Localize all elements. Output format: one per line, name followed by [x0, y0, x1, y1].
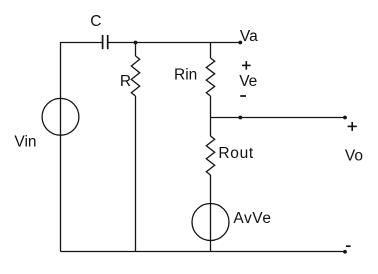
wire Rin bottom to node: [210, 96, 212, 136]
resistor Rout: [206, 136, 214, 175]
wire top-left horizontal: [61, 42, 103, 44]
label - of Ve: [240, 95, 246, 97]
label - of Vo: [346, 245, 351, 247]
junction node dot top: [134, 41, 138, 45]
svg-text:Vin: Vin: [14, 133, 36, 150]
bottom wire: [61, 251, 346, 253]
source AvVe: [192, 204, 229, 241]
svg-text:Rout: Rout: [218, 145, 254, 162]
svg-text:AvVe: AvVe: [233, 210, 271, 227]
resistor R: [131, 56, 139, 96]
svg-text:Rin: Rin: [174, 67, 197, 84]
svg-text:Ve: Ve: [239, 73, 257, 90]
svg-text:C: C: [90, 13, 101, 30]
resistor Rin: [206, 58, 214, 96]
node Vo+ terminal dot: [343, 116, 347, 120]
wire R bottom: [135, 96, 137, 252]
source Vin: [42, 98, 79, 135]
capacitor C: [103, 35, 108, 49]
node Vo- terminal dot: [343, 250, 347, 254]
wire output horizontal: [211, 117, 346, 119]
svg-text:R: R: [120, 73, 131, 90]
label + of Ve: [242, 61, 251, 70]
wire top-right horizontal: [109, 42, 241, 44]
svg-text:Va: Va: [240, 28, 258, 45]
wire left vertical: [60, 42, 62, 252]
label + of Vo: [348, 122, 357, 131]
node Va dot: [238, 41, 242, 45]
svg-text:Vo: Vo: [345, 148, 363, 165]
wire R top stub: [135, 43, 137, 57]
node dot on output wire: [238, 116, 242, 120]
wire Rin top stub: [210, 43, 212, 59]
wire Rout bottom vertical: [210, 175, 212, 252]
